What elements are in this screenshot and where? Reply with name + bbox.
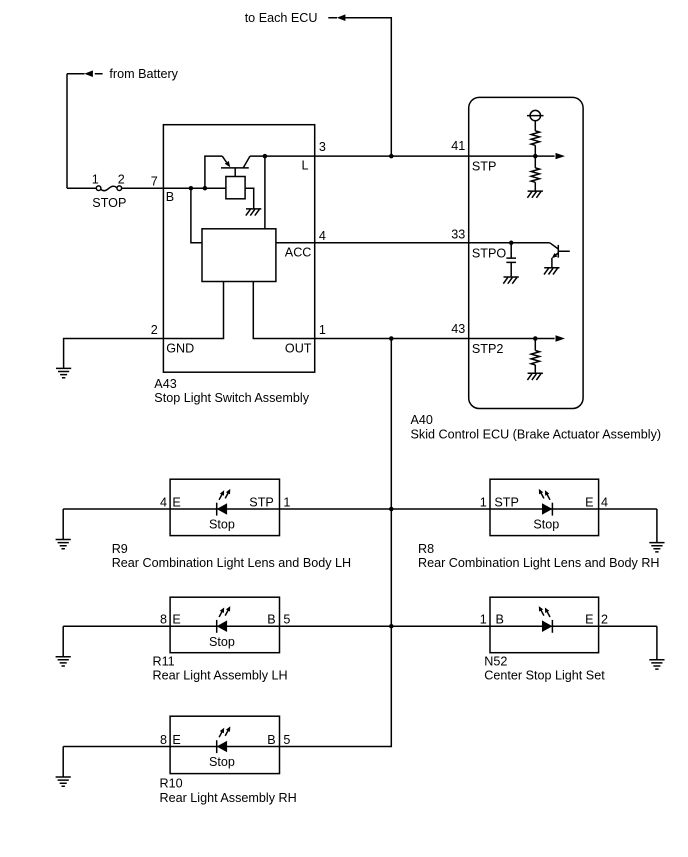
power feed circle in A40 bbox=[530, 110, 540, 120]
junction dot STP bbox=[533, 154, 538, 159]
wire: pin 3 L to A40 pin 41 STP bbox=[250, 155, 555, 157]
earth ground R9 bbox=[56, 540, 71, 549]
capacitor on STPO bbox=[506, 243, 516, 277]
svg-text:R10: R10 bbox=[160, 777, 183, 791]
wire: row2 stop lamps bbox=[63, 626, 657, 659]
svg-text:to Each ECU: to Each ECU bbox=[245, 11, 318, 25]
svg-text:Stop Light Switch Assembly: Stop Light Switch Assembly bbox=[154, 391, 309, 405]
svg-text:R9: R9 bbox=[112, 542, 128, 556]
LED in N52 bbox=[551, 620, 553, 633]
svg-text:1: 1 bbox=[92, 173, 99, 187]
svg-text:Skid Control ECU (Brake Actuat: Skid Control ECU (Brake Actuator Assembl… bbox=[411, 427, 662, 441]
wire: L junction down to internal unit bbox=[264, 156, 266, 229]
internal chassis ground in A43 bbox=[246, 209, 261, 216]
LED in R9 bbox=[216, 503, 218, 516]
junction dot on L wire bbox=[263, 154, 268, 159]
svg-text:STP: STP bbox=[472, 160, 497, 174]
svg-text:Stop: Stop bbox=[209, 755, 235, 769]
svg-text:E: E bbox=[585, 495, 593, 509]
lamp R10 Rear Light Assembly RH bbox=[170, 716, 279, 773]
svg-text:E: E bbox=[172, 613, 180, 627]
wire: row3 stop lamp bbox=[63, 747, 279, 777]
svg-text:Center Stop Light Set: Center Stop Light Set bbox=[484, 668, 605, 682]
earth ground at A43 GND bbox=[56, 368, 71, 377]
svg-text:B: B bbox=[496, 613, 504, 627]
wire: OUT through to arrow bbox=[469, 338, 555, 340]
lamp N52 Center Stop Light Set bbox=[490, 597, 599, 653]
svg-text:7: 7 bbox=[151, 175, 158, 189]
svg-text:STOP: STOP bbox=[92, 196, 126, 210]
junction dot OUT bus bbox=[389, 336, 394, 341]
junction dot at ECU feed bbox=[389, 154, 394, 159]
svg-text:Rear Light Assembly LH: Rear Light Assembly LH bbox=[153, 668, 288, 682]
wire: stop lamp bus bbox=[280, 339, 392, 747]
chassis ground under Q2 emitter bbox=[544, 268, 560, 275]
junction dot STPO bbox=[509, 241, 514, 246]
svg-text:5: 5 bbox=[283, 613, 290, 627]
svg-text:41: 41 bbox=[451, 139, 465, 153]
svg-text:B: B bbox=[267, 613, 275, 627]
wire: from Battery arrow and drop to STOP switch bbox=[67, 74, 103, 189]
svg-text:L: L bbox=[301, 159, 308, 173]
svg-text:Stop: Stop bbox=[209, 635, 235, 649]
wire: ACC pin 4 to A40 pin 33 STPO bbox=[276, 242, 550, 244]
earth ground R8 bbox=[649, 543, 664, 552]
svg-text:Rear Light Assembly RH: Rear Light Assembly RH bbox=[160, 791, 297, 805]
svg-text:1: 1 bbox=[319, 323, 326, 337]
svg-text:4: 4 bbox=[601, 495, 608, 509]
chassis ground under STP2 resistor bbox=[527, 373, 543, 380]
svg-text:R8: R8 bbox=[418, 542, 434, 556]
box A43 Stop Light Switch Assembly bbox=[163, 125, 314, 373]
svg-text:4: 4 bbox=[160, 495, 167, 509]
chassis ground under capacitor bbox=[503, 277, 519, 284]
svg-text:1: 1 bbox=[480, 613, 487, 627]
svg-text:STP: STP bbox=[494, 495, 519, 509]
svg-text:33: 33 bbox=[451, 228, 465, 242]
svg-text:2: 2 bbox=[601, 613, 608, 627]
resistor block in A43 bbox=[226, 177, 245, 199]
wire: B branch to internal unit bbox=[191, 188, 202, 243]
svg-text:3: 3 bbox=[319, 140, 326, 154]
svg-text:N52: N52 bbox=[484, 654, 507, 668]
wire: to Each ECU arrow and drop to L line bbox=[328, 18, 391, 156]
LED in R11 bbox=[216, 620, 218, 633]
svg-text:from Battery: from Battery bbox=[109, 67, 178, 81]
svg-text:Rear Combination Light Lens an: Rear Combination Light Lens and Body RH bbox=[418, 556, 660, 570]
svg-text:OUT: OUT bbox=[285, 342, 312, 356]
svg-text:2: 2 bbox=[151, 323, 158, 337]
svg-text:Rear Combination Light Lens an: Rear Combination Light Lens and Body LH bbox=[112, 556, 351, 570]
lamp R11 Rear Light Assembly LH bbox=[170, 597, 279, 653]
wire: unit to OUT pin 1 bbox=[253, 282, 468, 339]
svg-text:2: 2 bbox=[118, 173, 125, 187]
svg-text:4: 4 bbox=[319, 229, 326, 243]
svg-text:Stop: Stop bbox=[209, 518, 235, 532]
wire: unit to GND pin 2 with earth ground bbox=[64, 282, 224, 369]
svg-text:43: 43 bbox=[451, 322, 465, 336]
earth ground N52 bbox=[649, 660, 664, 669]
svg-text:E: E bbox=[172, 733, 180, 747]
svg-text:GND: GND bbox=[166, 342, 194, 356]
svg-text:8: 8 bbox=[160, 733, 167, 747]
pull-up resistor on STP bbox=[534, 121, 536, 131]
svg-text:B: B bbox=[166, 190, 174, 204]
svg-text:E: E bbox=[172, 495, 180, 509]
wire: resistor block to internal ground bbox=[245, 188, 254, 208]
junction dot B-branch down bbox=[189, 186, 194, 191]
svg-text:STP2: STP2 bbox=[472, 342, 504, 356]
pull-down resistor on STP bbox=[534, 156, 536, 168]
svg-text:STP: STP bbox=[249, 495, 274, 509]
svg-text:1: 1 bbox=[480, 495, 487, 509]
wire: row1 stop lamps bbox=[63, 509, 657, 542]
svg-text:5: 5 bbox=[283, 733, 290, 747]
chassis ground under STP resistor bbox=[527, 191, 543, 198]
pull-down resistor on STP2 bbox=[534, 339, 536, 351]
lamp R8 Rear Combination Light Lens and Body RH bbox=[490, 479, 599, 535]
svg-text:A40: A40 bbox=[411, 413, 433, 427]
arrow into ECU on STP bbox=[556, 153, 566, 159]
LED in R10 bbox=[216, 740, 218, 753]
box A40 Skid Control ECU bbox=[469, 97, 583, 408]
switch STOP terminal 1 bbox=[96, 186, 101, 191]
svg-text:8: 8 bbox=[160, 613, 167, 627]
transistor Q1 in A43 bbox=[205, 156, 250, 188]
svg-text:E: E bbox=[585, 613, 593, 627]
internal unit box in A43 bbox=[202, 229, 276, 282]
svg-text:Stop: Stop bbox=[533, 518, 559, 532]
earth ground R10 bbox=[56, 777, 71, 786]
switch STOP terminal 2 bbox=[117, 186, 122, 191]
junction dot STP2 bbox=[533, 336, 538, 341]
svg-text:B: B bbox=[267, 733, 275, 747]
svg-text:R11: R11 bbox=[153, 654, 175, 668]
wire: switch to pin 7 (B) bbox=[122, 187, 226, 189]
lamp R9 Rear Combination Light Lens and Body LH bbox=[170, 479, 279, 535]
svg-text:ACC: ACC bbox=[285, 245, 312, 259]
LED in R8 bbox=[551, 503, 553, 516]
junction dot B-branch up bbox=[203, 186, 208, 191]
svg-text:A43: A43 bbox=[154, 377, 176, 391]
transistor Q2 in A40 bbox=[550, 243, 570, 267]
switch STOP blade bbox=[101, 186, 117, 190]
earth ground R11 bbox=[56, 657, 71, 666]
svg-text:1: 1 bbox=[283, 495, 290, 509]
svg-text:STPO: STPO bbox=[472, 246, 506, 260]
